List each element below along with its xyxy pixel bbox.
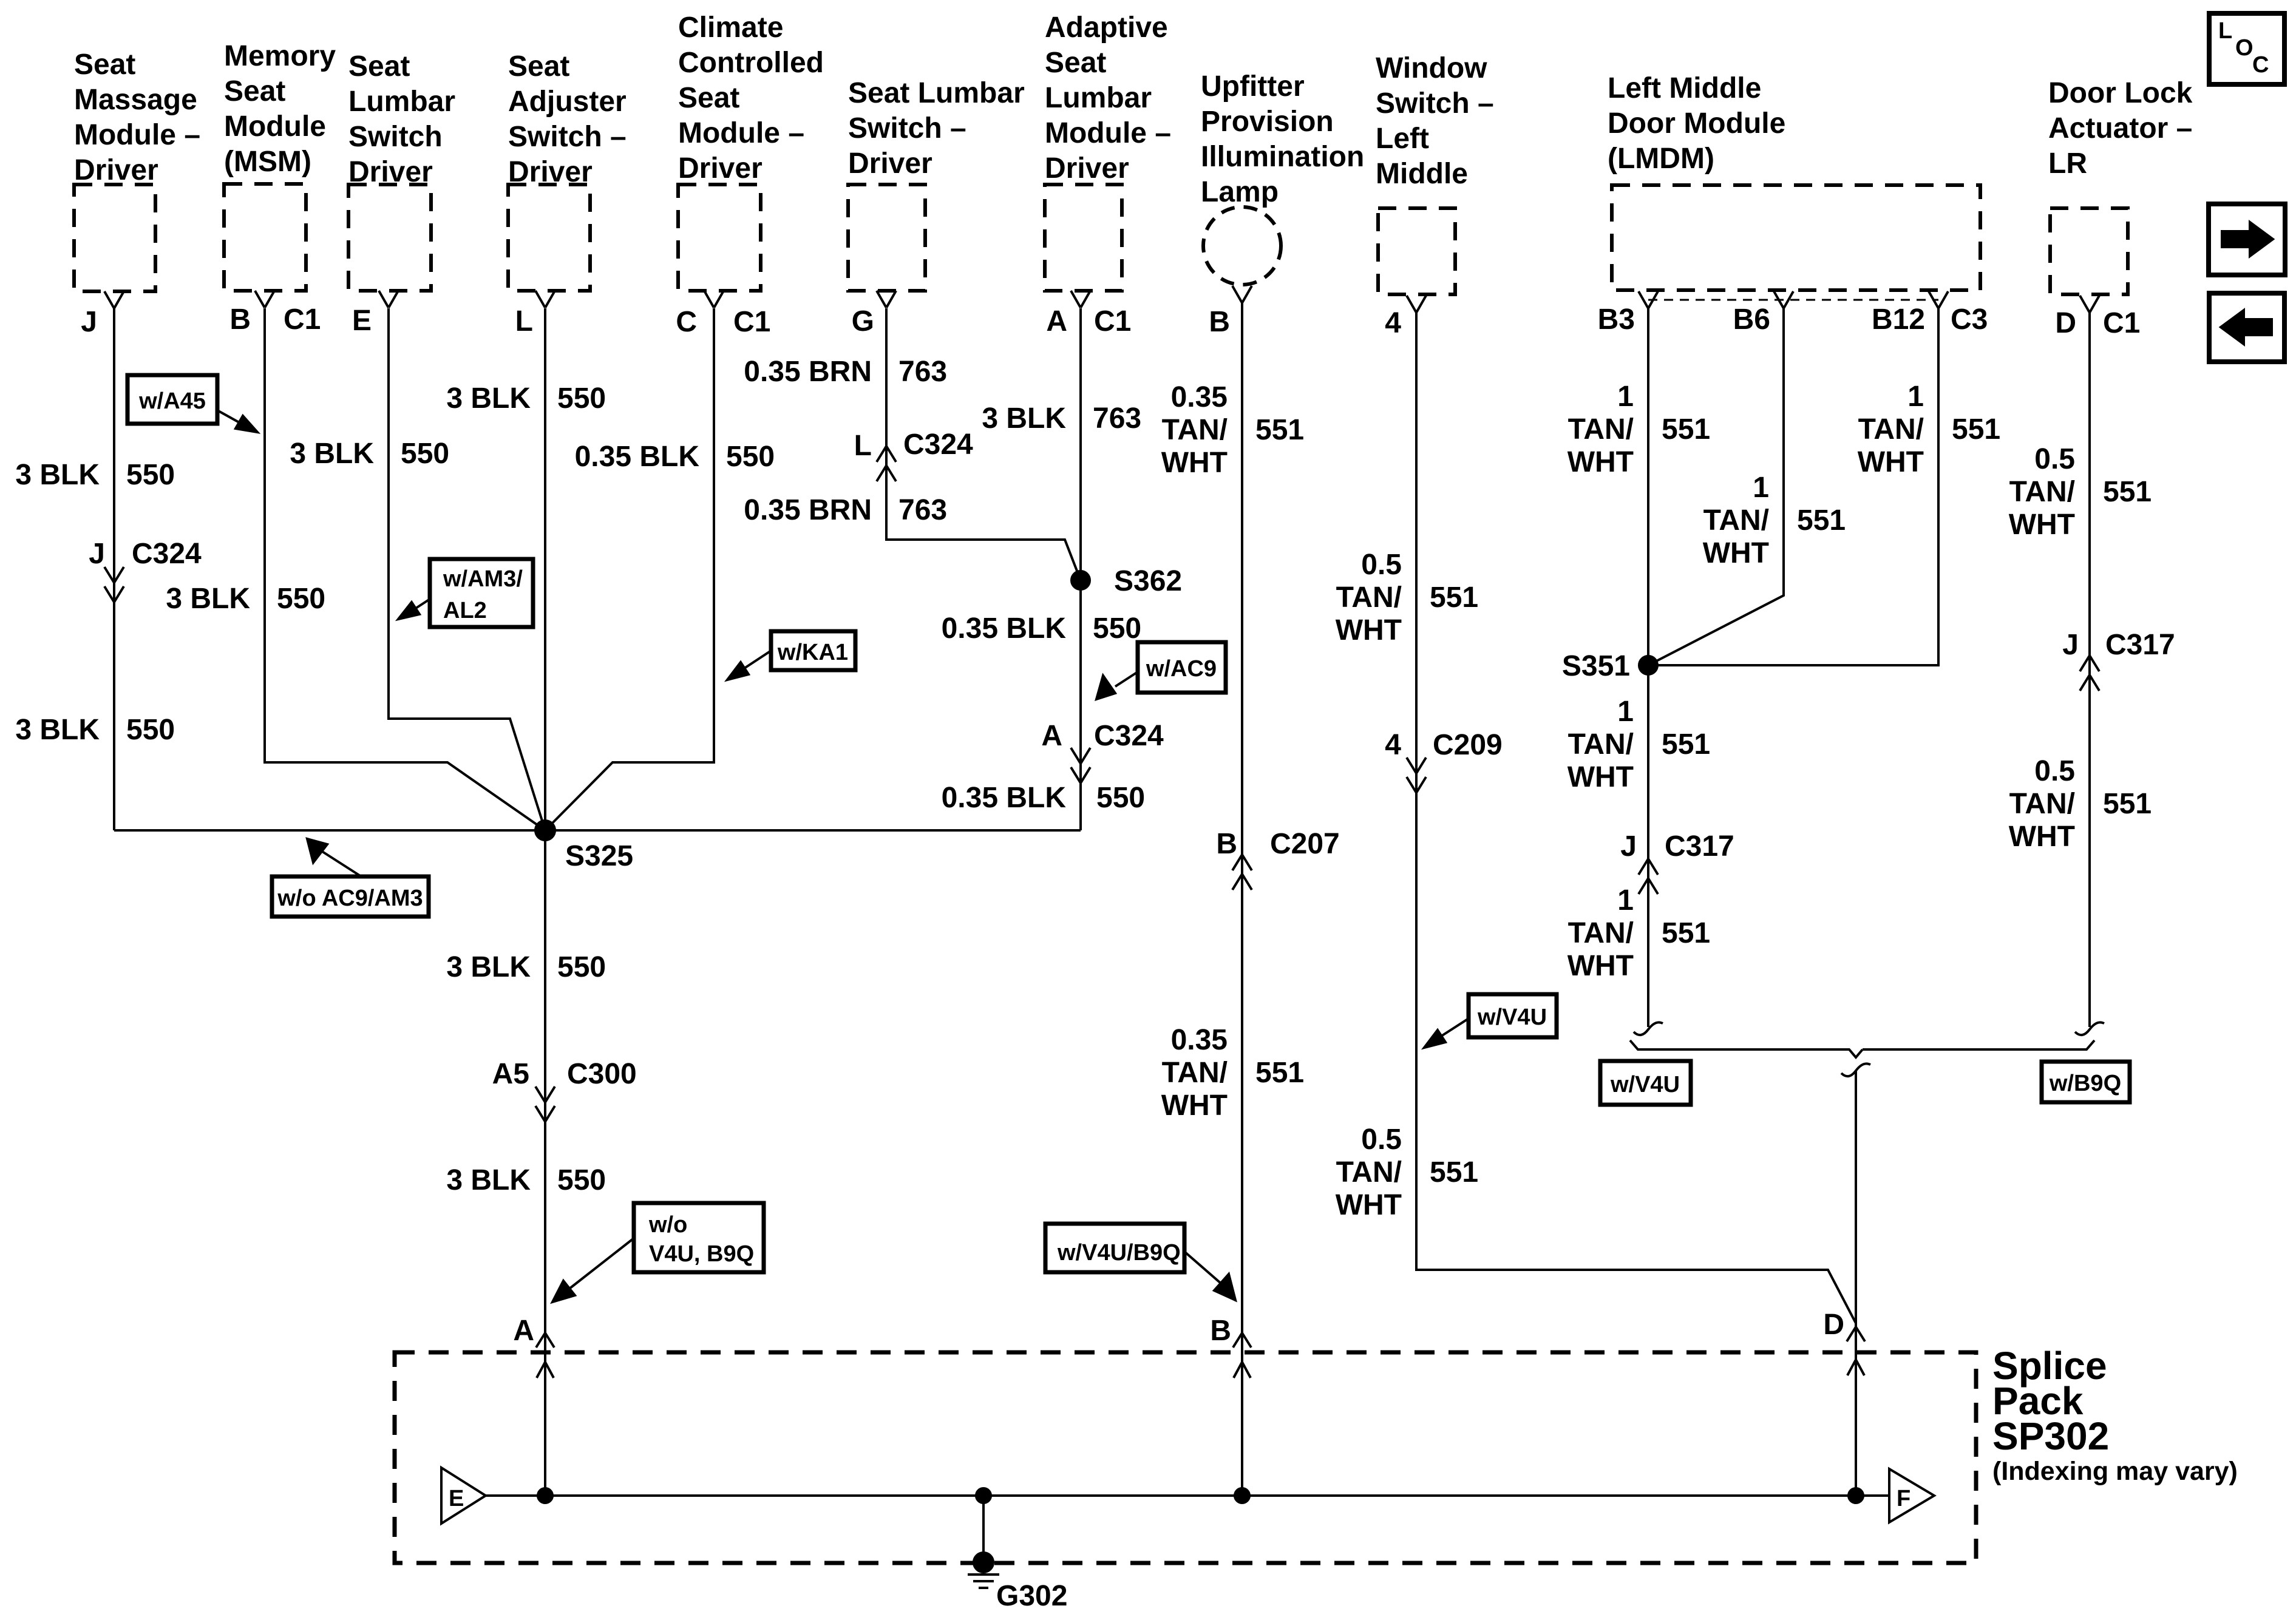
- svg-text:Driver: Driver: [678, 152, 763, 185]
- pin label B6: [1733, 303, 1770, 336]
- wire Seat Lumbar Switch G circuit 763 (W6): [886, 308, 1081, 580]
- svg-text:C: C: [2252, 52, 2269, 78]
- splice pack label: [1992, 1344, 2238, 1486]
- connector fork Adaptive Lumbar pin A/C1: [1071, 291, 1090, 308]
- svg-text:SP302: SP302: [1992, 1414, 2109, 1458]
- wire label 3 BLK 550 (W4 lower): [446, 1164, 606, 1196]
- svg-text:w/o: w/o: [648, 1212, 687, 1238]
- connector fork LMDM pin B3: [1639, 291, 1658, 308]
- pin label C: [676, 306, 697, 338]
- svg-text:J: J: [81, 306, 97, 338]
- wire LMDM B6 circuit 551 (W11): [1648, 308, 1784, 665]
- wire label 0.35 TAN/WHT 551 (W8 upper): [1161, 381, 1304, 479]
- svg-text:Module –: Module –: [74, 119, 200, 151]
- svg-text:0.5: 0.5: [2034, 755, 2075, 787]
- pin label C1 doorlock: [2103, 307, 2140, 339]
- wire label 0.35 BRN 763 (W6 lower): [744, 494, 947, 526]
- svg-text:3 BLK: 3 BLK: [446, 1164, 531, 1196]
- component Adaptive Seat Lumbar Module - Driver: [1045, 12, 1171, 291]
- wire LMDM B3 circuit 551 (W10): [1647, 308, 1649, 1027]
- wire label 0.35 BLK 550 (W5): [575, 441, 775, 473]
- pin label A: [1046, 305, 1067, 337]
- connector fork Seat Massage pin J: [104, 291, 124, 308]
- in-line connector A5 C300: [492, 1058, 637, 1122]
- svg-text:Controlled: Controlled: [678, 47, 824, 79]
- junction dot A on bus: [538, 1488, 552, 1503]
- wire Seat Adjuster ground trunk (W4): [544, 308, 546, 1496]
- svg-text:Climate: Climate: [678, 12, 783, 44]
- wire label 3 BLK 550 (W2): [166, 583, 325, 615]
- option tag w/A45: [127, 375, 257, 432]
- svg-text:551: 551: [1430, 581, 1478, 614]
- svg-text:551: 551: [1430, 1156, 1478, 1188]
- wire label 3 BLK 550 (W4 upper): [446, 382, 606, 415]
- connector fork LMDM pin B12/C3: [1929, 291, 1948, 308]
- svg-text:Module –: Module –: [1045, 117, 1171, 149]
- wire option merge left segment: [1630, 1040, 1863, 1057]
- svg-text:Driver: Driver: [74, 154, 158, 186]
- svg-text:WHT: WHT: [1336, 614, 1402, 646]
- svg-text:Actuator –: Actuator –: [2048, 112, 2192, 144]
- svg-text:0.5: 0.5: [1361, 1124, 1402, 1156]
- svg-text:3 BLK: 3 BLK: [15, 714, 100, 746]
- in-line connector J C317 right: [2062, 629, 2175, 691]
- svg-text:TAN/: TAN/: [1568, 413, 1634, 446]
- svg-text:B: B: [229, 303, 251, 336]
- svg-text:550: 550: [1096, 782, 1145, 814]
- svg-text:D: D: [2055, 307, 2076, 339]
- svg-text:Left: Left: [1376, 123, 1429, 155]
- wire ground drop: [982, 1496, 985, 1555]
- svg-text:0.35 BRN: 0.35 BRN: [744, 494, 872, 526]
- svg-text:Illumination: Illumination: [1201, 141, 1364, 173]
- svg-text:Lamp: Lamp: [1201, 176, 1279, 208]
- svg-text:1: 1: [1617, 696, 1634, 728]
- svg-text:4: 4: [1385, 729, 1401, 761]
- svg-text:TAN/: TAN/: [1162, 414, 1228, 446]
- wire label 3 BLK 550 (W4 mid): [446, 951, 606, 983]
- wire Window Switch circuit 551 (W9): [1416, 313, 1856, 1323]
- svg-text:S351: S351: [1562, 650, 1630, 682]
- option tag w/B9Q on merge: [2042, 1062, 2130, 1102]
- svg-text:Seat: Seat: [508, 50, 569, 83]
- svg-text:1: 1: [1617, 381, 1634, 413]
- svg-text:C1: C1: [2103, 307, 2140, 339]
- wire LMDM B12 circuit 551 (W12): [1648, 308, 1938, 665]
- wire W13 break hook: [2075, 1022, 2104, 1035]
- wire label 1 TAN/WHT 551 (W10 mid): [1567, 696, 1710, 793]
- connector fork Seat Adjuster pin L: [535, 291, 555, 308]
- LMDM connector dashed line: [1648, 299, 1938, 301]
- wire label 0.5 TAN/WHT 551 (W13 upper): [2009, 443, 2152, 541]
- pin label J: [81, 306, 97, 338]
- svg-text:0.5: 0.5: [2034, 443, 2075, 475]
- svg-text:3 BLK: 3 BLK: [982, 402, 1066, 435]
- svg-text:551: 551: [1797, 504, 1846, 537]
- component Seat Massage Module - Driver: [74, 49, 200, 291]
- svg-text:Lumbar: Lumbar: [348, 86, 455, 118]
- svg-text:TAN/: TAN/: [1568, 917, 1634, 949]
- svg-text:550: 550: [277, 583, 325, 615]
- svg-text:F: F: [1897, 1486, 1911, 1511]
- svg-text:WHT: WHT: [1703, 537, 1769, 569]
- splice connector B: [1210, 1315, 1251, 1378]
- svg-text:D: D: [1823, 1309, 1844, 1341]
- pin label C1 climate: [733, 306, 770, 338]
- svg-text:Adaptive: Adaptive: [1045, 12, 1168, 44]
- svg-text:3 BLK: 3 BLK: [446, 382, 531, 415]
- svg-text:WHT: WHT: [1161, 1090, 1228, 1122]
- svg-text:WHT: WHT: [1336, 1189, 1402, 1221]
- svg-text:Adjuster: Adjuster: [508, 86, 627, 118]
- svg-text:LR: LR: [2048, 147, 2087, 180]
- connector fork Seat Lumbar Switch pin E: [379, 291, 398, 308]
- connector fork MSM pin B/C1: [255, 291, 274, 308]
- svg-text:w/V4U: w/V4U: [1610, 1072, 1680, 1097]
- svg-text:B12: B12: [1872, 303, 1925, 336]
- svg-text:L: L: [2218, 18, 2232, 44]
- svg-text:(MSM): (MSM): [224, 146, 311, 178]
- svg-text:4: 4: [1385, 307, 1401, 339]
- svg-text:E: E: [352, 305, 372, 337]
- svg-text:Switch –: Switch –: [508, 121, 627, 153]
- svg-text:550: 550: [726, 441, 775, 473]
- svg-text:1: 1: [1753, 472, 1769, 504]
- svg-text:w/AM3/: w/AM3/: [443, 566, 523, 592]
- svg-text:763: 763: [898, 494, 947, 526]
- pin label B12: [1872, 303, 1925, 336]
- svg-text:Window: Window: [1376, 52, 1487, 84]
- svg-text:w/V4U: w/V4U: [1477, 1005, 1547, 1030]
- svg-text:Seat: Seat: [224, 75, 285, 107]
- svg-text:551: 551: [1255, 1057, 1304, 1089]
- svg-text:TAN/: TAN/: [1568, 728, 1634, 761]
- svg-text:0.35 BRN: 0.35 BRN: [744, 356, 872, 388]
- pin label B: [229, 303, 251, 336]
- svg-text:Seat: Seat: [74, 49, 135, 81]
- svg-text:TAN/: TAN/: [1336, 1156, 1402, 1188]
- svg-text:Driver: Driver: [1045, 152, 1129, 185]
- splice connector A: [513, 1315, 554, 1378]
- svg-text:3 BLK: 3 BLK: [15, 459, 100, 491]
- svg-text:Upfitter: Upfitter: [1201, 70, 1305, 103]
- svg-text:C1: C1: [284, 303, 321, 336]
- wire label 3 BLK 550 (W3): [290, 438, 449, 470]
- svg-text:WHT: WHT: [1567, 950, 1634, 982]
- svg-text:C209: C209: [1433, 729, 1503, 761]
- option tag w/V4U/B9Q: [1045, 1224, 1235, 1300]
- svg-text:550: 550: [557, 382, 606, 415]
- svg-text:AL2: AL2: [443, 598, 487, 623]
- splice pack terminal F: [1889, 1469, 1934, 1522]
- splice S362: [1072, 565, 1182, 597]
- svg-text:w/B9Q: w/B9Q: [2049, 1071, 2121, 1096]
- svg-text:3 BLK: 3 BLK: [166, 583, 250, 615]
- svg-text:V4U, B9Q: V4U, B9Q: [649, 1241, 754, 1267]
- connector fork Upfitter Lamp pin B: [1232, 286, 1252, 303]
- option tag w/o AC9/AM3: [272, 839, 429, 917]
- svg-text:(Indexing may vary): (Indexing may vary): [1992, 1457, 2238, 1486]
- wire label 0.35 BLK 550 (W7 mid): [942, 612, 1142, 645]
- svg-text:550: 550: [401, 438, 449, 470]
- pin label D: [2055, 307, 2076, 339]
- svg-text:Provision: Provision: [1201, 106, 1334, 138]
- wire Seat Massage ground (W1 vertical): [113, 308, 115, 830]
- svg-text:551: 551: [1255, 414, 1304, 446]
- component Seat Lumbar Switch Driver: [348, 50, 455, 291]
- svg-text:TAN/: TAN/: [1703, 504, 1769, 537]
- svg-text:E: E: [449, 1486, 464, 1511]
- svg-text:C: C: [676, 306, 697, 338]
- pin label G: [852, 305, 874, 337]
- svg-text:551: 551: [2103, 476, 2152, 508]
- option tag w/AM3/AL2: [398, 559, 533, 627]
- svg-text:S362: S362: [1114, 565, 1182, 597]
- splice pack terminal E: [441, 1468, 486, 1524]
- svg-text:C324: C324: [132, 538, 202, 570]
- wire option merge right segment: [1863, 1040, 2094, 1049]
- option tag w/KA1: [727, 631, 855, 680]
- svg-text:Left Middle: Left Middle: [1608, 72, 1761, 104]
- svg-text:763: 763: [898, 356, 947, 388]
- component Door Lock Actuator - LR: [2048, 77, 2193, 294]
- wire label 0.35 BLK 550 (W7 lower): [942, 782, 1146, 814]
- svg-text:w/A45: w/A45: [138, 388, 206, 414]
- svg-text:A: A: [1041, 720, 1062, 752]
- svg-text:0.35: 0.35: [1171, 381, 1228, 413]
- wire label 1 TAN/WHT 551 (W10 lower): [1567, 884, 1710, 982]
- svg-text:Door Module: Door Module: [1608, 107, 1785, 140]
- svg-text:WHT: WHT: [2009, 821, 2075, 853]
- svg-text:Module –: Module –: [678, 117, 804, 149]
- svg-text:B: B: [1216, 828, 1237, 860]
- in-line connector 4 C209: [1385, 729, 1502, 793]
- splice connector D: [1823, 1309, 1865, 1375]
- component Seat Lumbar Switch - Driver: [848, 77, 1025, 291]
- junction dot D on bus: [1849, 1488, 1863, 1503]
- pin label C3: [1951, 303, 1988, 336]
- pin label C1 adaptive: [1094, 305, 1131, 337]
- in-line connector J C317 left: [1620, 830, 1734, 894]
- svg-text:O: O: [2235, 35, 2254, 61]
- svg-text:1: 1: [1907, 381, 1924, 413]
- svg-text:551: 551: [1662, 728, 1710, 761]
- svg-text:Module: Module: [224, 110, 326, 143]
- pin label 4: [1385, 307, 1401, 339]
- svg-text:Seat Lumbar: Seat Lumbar: [848, 77, 1025, 109]
- svg-text:Switch: Switch: [348, 121, 443, 153]
- wire Seat Lumbar Switch ground (W3): [389, 308, 545, 830]
- wire MSM ground (W2): [265, 308, 545, 830]
- svg-text:Switch –: Switch –: [848, 112, 966, 144]
- svg-text:550: 550: [1093, 612, 1141, 645]
- connector fork Window Switch pin 4: [1407, 296, 1426, 313]
- prev-page left arrow icon: [2209, 293, 2284, 362]
- in-line connector J C324: [89, 538, 202, 602]
- svg-text:Seat: Seat: [348, 50, 410, 83]
- svg-text:B: B: [1210, 1315, 1231, 1347]
- wire main ground bus to S325 (horizontal): [114, 829, 1081, 832]
- svg-text:TAN/: TAN/: [2009, 476, 2075, 508]
- svg-text:551: 551: [1662, 413, 1710, 446]
- svg-text:TAN/: TAN/: [2009, 788, 2075, 820]
- svg-text:TAN/: TAN/: [1336, 581, 1402, 614]
- svg-text:550: 550: [126, 459, 175, 491]
- wire label 3 BLK 763 (W7 upper): [982, 402, 1141, 435]
- svg-text:B3: B3: [1598, 303, 1635, 336]
- connector fork Door Lock pin D/C1: [2080, 296, 2099, 313]
- pin label C1: [284, 303, 321, 336]
- wire label 1 TAN/WHT 551 (W10 upper): [1567, 381, 1710, 478]
- svg-text:3 BLK: 3 BLK: [290, 438, 374, 470]
- svg-text:0.35 BLK: 0.35 BLK: [942, 612, 1067, 645]
- wire label 3 BLK 550 (W1 upper): [15, 459, 175, 491]
- svg-text:w/KA1: w/KA1: [777, 640, 848, 665]
- svg-text:551: 551: [2103, 788, 2152, 820]
- LOC indicator box: [2209, 13, 2284, 84]
- svg-text:C324: C324: [903, 429, 973, 461]
- junction dot G302 branch on bus: [976, 1488, 991, 1503]
- svg-text:Lumbar: Lumbar: [1045, 82, 1152, 114]
- svg-text:B6: B6: [1733, 303, 1770, 336]
- svg-text:TAN/: TAN/: [1858, 413, 1924, 446]
- svg-text:S325: S325: [565, 840, 633, 872]
- component Memory Seat Module (MSM): [224, 40, 336, 291]
- svg-text:TAN/: TAN/: [1162, 1057, 1228, 1089]
- ground G302: [968, 1553, 1067, 1612]
- svg-text:w/V4U/B9Q: w/V4U/B9Q: [1057, 1240, 1181, 1266]
- svg-text:0.35: 0.35: [1171, 1024, 1228, 1056]
- svg-text:WHT: WHT: [1858, 446, 1924, 478]
- component Seat Adjuster Switch - Driver: [508, 50, 627, 291]
- svg-text:0.35 BLK: 0.35 BLK: [942, 782, 1067, 814]
- svg-text:Seat: Seat: [678, 82, 739, 114]
- svg-text:G302: G302: [996, 1580, 1067, 1612]
- wire Climate Seat ground (W5): [545, 308, 714, 830]
- svg-text:J: J: [1620, 830, 1637, 863]
- svg-text:C317: C317: [2105, 629, 2175, 661]
- svg-text:Memory: Memory: [224, 40, 336, 72]
- svg-text:A5: A5: [492, 1058, 529, 1090]
- pin label B upfitter: [1209, 306, 1230, 338]
- svg-text:A: A: [1046, 305, 1067, 337]
- option tag w/V4U pointing to window wire: [1424, 994, 1557, 1048]
- svg-text:C300: C300: [567, 1058, 637, 1090]
- in-line connector A C324: [1041, 720, 1164, 783]
- svg-text:C3: C3: [1951, 303, 1988, 336]
- option tag w/o V4U, B9Q: [552, 1203, 764, 1302]
- svg-text:550: 550: [557, 1164, 606, 1196]
- svg-text:Seat: Seat: [1045, 47, 1106, 79]
- svg-text:L: L: [515, 305, 533, 337]
- splice S325: [535, 821, 633, 872]
- splice S351: [1562, 650, 1657, 682]
- svg-text:1: 1: [1617, 884, 1634, 917]
- junction dot B on bus: [1235, 1488, 1249, 1503]
- wire Adaptive Lumbar ground (W7): [1079, 308, 1082, 830]
- svg-text:0.5: 0.5: [1361, 549, 1402, 581]
- svg-text:B: B: [1209, 306, 1230, 338]
- wire label 0.35 TAN/WHT 551 (W8 lower): [1161, 1024, 1304, 1122]
- in-line connector L C324: [854, 429, 973, 481]
- svg-text:J: J: [2062, 629, 2079, 661]
- splice pack SP302 dashed box: [395, 1352, 1976, 1563]
- svg-text:3 BLK: 3 BLK: [446, 951, 531, 983]
- svg-text:w/AC9: w/AC9: [1146, 656, 1217, 682]
- svg-text:G: G: [852, 305, 874, 337]
- svg-text:w/o AC9/AM3: w/o AC9/AM3: [277, 886, 423, 911]
- svg-text:C207: C207: [1270, 828, 1340, 860]
- svg-text:0.35 BLK: 0.35 BLK: [575, 441, 700, 473]
- splice pack bus wire: [486, 1494, 1889, 1497]
- pin label L: [515, 305, 533, 337]
- svg-text:763: 763: [1093, 402, 1141, 435]
- svg-text:(LMDM): (LMDM): [1608, 143, 1714, 175]
- wire label 0.5 TAN/WHT 551 (W9 upper): [1336, 549, 1478, 646]
- wire Upfitter Lamp circuit 551 (W8): [1241, 303, 1243, 1496]
- component Climate Controlled Seat Module - Driver: [678, 12, 824, 291]
- wire label 0.35 BRN 763 (W6 upper): [744, 356, 947, 388]
- svg-text:C324: C324: [1094, 720, 1164, 752]
- pin label B3: [1598, 303, 1635, 336]
- svg-text:A: A: [513, 1315, 534, 1347]
- svg-text:Door Lock: Door Lock: [2048, 77, 2193, 109]
- svg-text:WHT: WHT: [1161, 447, 1228, 479]
- wire label 0.5 TAN/WHT 551 (W9 lower): [1336, 1124, 1478, 1221]
- component Window Switch - Left Middle: [1376, 52, 1494, 294]
- svg-text:C317: C317: [1665, 830, 1734, 863]
- svg-text:J: J: [89, 538, 105, 570]
- connector fork LMDM pin B6: [1774, 291, 1793, 308]
- svg-text:551: 551: [1952, 413, 2000, 446]
- wire Door Lock circuit 551 (W13): [2088, 313, 2091, 1027]
- wire merged to splice D (W14): [1841, 1063, 1870, 1496]
- wire W10 break hook: [1634, 1022, 1663, 1035]
- wire label 1 TAN/WHT 551 (W11): [1703, 472, 1846, 569]
- option tag w/AC9: [1096, 642, 1226, 699]
- in-line connector B C207: [1216, 828, 1339, 890]
- svg-text:C1: C1: [733, 306, 770, 338]
- svg-text:551: 551: [1662, 917, 1710, 949]
- svg-text:Switch –: Switch –: [1376, 87, 1494, 120]
- svg-text:C1: C1: [1094, 305, 1131, 337]
- connector fork Seat Lumbar Switch pin G: [877, 291, 896, 308]
- svg-text:WHT: WHT: [1567, 446, 1634, 478]
- wire label 3 BLK 550 (W1 lower): [15, 714, 175, 746]
- wire label 0.5 TAN/WHT 551 (W13 lower): [2009, 755, 2152, 853]
- component Upfitter Provision Illumination Lamp: [1201, 70, 1364, 285]
- svg-text:Driver: Driver: [848, 147, 932, 180]
- connector fork Climate Seat pin C/C1: [704, 291, 724, 308]
- wire label 1 TAN/WHT 551 (W12): [1858, 381, 2000, 478]
- svg-text:550: 550: [126, 714, 175, 746]
- option tag w/V4U on merge: [1600, 1061, 1691, 1105]
- pin label E: [352, 305, 372, 337]
- svg-text:WHT: WHT: [2009, 509, 2075, 541]
- svg-text:Massage: Massage: [74, 84, 197, 116]
- component Left Middle Door Module (LMDM): [1608, 72, 1980, 290]
- svg-text:WHT: WHT: [1567, 761, 1634, 793]
- svg-text:L: L: [854, 430, 872, 462]
- svg-text:Middle: Middle: [1376, 158, 1468, 190]
- svg-text:550: 550: [557, 951, 606, 983]
- next-page right arrow icon: [2209, 204, 2285, 275]
